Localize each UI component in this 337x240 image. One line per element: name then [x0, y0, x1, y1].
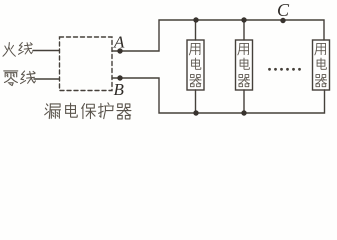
svg-text:B: B [114, 80, 125, 99]
svg-text:C: C [277, 0, 290, 20]
svg-text:A: A [113, 33, 125, 52]
